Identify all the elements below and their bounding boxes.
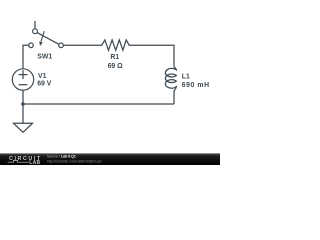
svg-text:L1: L1 <box>182 73 190 80</box>
svg-text:Source / Lab 6 Q1: Source / Lab 6 Q1 <box>47 155 76 159</box>
svg-text:R1: R1 <box>110 54 119 61</box>
svg-text:SW1: SW1 <box>37 54 52 61</box>
svg-text:LAB: LAB <box>29 160 40 165</box>
svg-text:690 mH: 690 mH <box>182 82 210 89</box>
svg-text:69 V: 69 V <box>37 80 52 87</box>
svg-text:69 Ω: 69 Ω <box>108 63 124 70</box>
svg-text:http://circuitlab.com/c/89zmb9: http://circuitlab.com/c/89zmb9j5c1qw/ <box>47 160 102 164</box>
svg-text:V1: V1 <box>38 73 47 80</box>
